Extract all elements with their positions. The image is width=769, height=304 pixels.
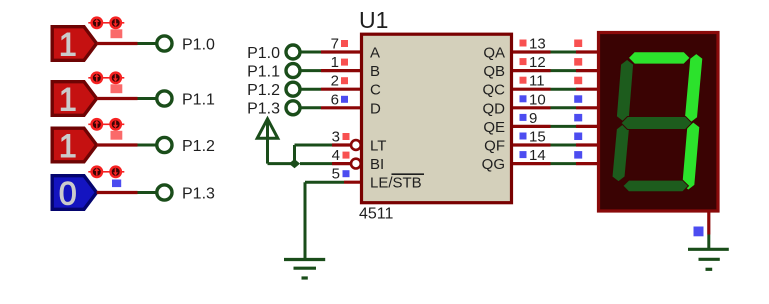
segment E (off): [612, 124, 629, 182]
wire LS3 to terminal: [138, 144, 157, 147]
terminal P1.2 (left): [157, 137, 215, 154]
segment A (lit): [628, 52, 690, 64]
wire LS2 to terminal: [138, 97, 157, 100]
svg-text:P1.0: P1.0: [182, 36, 215, 53]
toggle buttons of LS1: [88, 18, 124, 28]
wire LS1 to terminal: [138, 42, 157, 45]
toggle buttons of LS4: [88, 167, 124, 177]
state indicator square of LS2: [111, 84, 123, 93]
svg-text:9: 9: [529, 110, 537, 127]
svg-text:B: B: [370, 63, 380, 80]
ground symbol at U1: [284, 260, 325, 279]
wire QG to display: [551, 162, 577, 165]
junction node: [289, 159, 300, 168]
wire QF to display: [551, 144, 577, 147]
wire P1.0 terminal to pin 7: [301, 51, 322, 54]
wire arrow to junction: [268, 162, 295, 165]
power arrow terminal: [257, 119, 278, 164]
wire QE to display: [551, 125, 577, 128]
terminal P1.3 (left): [157, 185, 215, 202]
svg-text:P1.1: P1.1: [182, 91, 215, 108]
pin 15 of U1 (QF): [513, 129, 551, 146]
wire QD to display: [551, 106, 577, 109]
wire junction to BI: [300, 162, 332, 165]
svg-text:1: 1: [331, 54, 339, 71]
toggle buttons of LS2: [88, 73, 124, 83]
svg-text:P1.2: P1.2: [182, 138, 215, 155]
svg-text:LT: LT: [370, 138, 386, 155]
pin 4 of U1 (BI, active-low bubble): [332, 147, 361, 168]
svg-text:D: D: [370, 100, 381, 117]
state indicator square of LS1: [111, 29, 123, 38]
svg-text:QF: QF: [484, 138, 505, 155]
pin of LS3: [97, 143, 138, 146]
svg-text:A: A: [370, 45, 380, 62]
svg-text:10: 10: [529, 91, 546, 108]
pin 1 of U1 (B): [321, 54, 362, 71]
svg-text:15: 15: [529, 129, 546, 146]
pin 9 of U1 (QE): [513, 110, 551, 127]
svg-text:P1.2: P1.2: [247, 82, 280, 99]
wire P1.1 terminal to pin 1: [301, 69, 322, 72]
op chip U1 body (4511 BCD decoder): [359, 7, 512, 223]
pin 7 of U1 (A): [321, 36, 362, 53]
pin 2 of U1 (C): [321, 73, 362, 90]
svg-text:QE: QE: [483, 119, 505, 136]
svg-text:QD: QD: [483, 100, 506, 117]
pin of LS1: [97, 42, 138, 45]
wire P1.3 terminal to pin 6: [301, 106, 322, 109]
terminal P1.1 (at U1): [247, 63, 300, 80]
wire QA to display: [551, 51, 577, 54]
logic state input LS2 value 1: [52, 81, 96, 117]
pin 10 of U1 (QD): [513, 91, 551, 108]
pin 14 of U1 (QG): [513, 147, 551, 164]
svg-text:3: 3: [332, 129, 340, 146]
segment G (off): [621, 117, 692, 130]
pin 13 of U1 (QA): [513, 36, 551, 53]
wire pin 5 to ground: [305, 182, 344, 259]
segment D (off): [623, 180, 689, 192]
display pin QF: [574, 133, 598, 146]
wire common to ground: [707, 235, 710, 250]
pin 12 of U1 (QB): [513, 54, 551, 71]
wire P1.2 terminal to pin 2: [301, 88, 322, 91]
svg-text:C: C: [370, 82, 381, 99]
svg-text:4: 4: [332, 147, 340, 164]
svg-text:14: 14: [529, 147, 546, 164]
pin of LS2: [97, 97, 138, 100]
segment C (lit): [682, 122, 700, 190]
7-segment display body: [599, 33, 719, 212]
display pin QB: [574, 58, 598, 71]
wire junction up to LT: [295, 145, 333, 164]
svg-text:0: 0: [59, 175, 77, 211]
svg-text:QC: QC: [483, 82, 506, 99]
svg-text:4511: 4511: [359, 206, 394, 223]
svg-text:LE/STB: LE/STB: [370, 175, 422, 192]
logic state input LS1 value 1: [52, 26, 96, 62]
logic state input LS4 value 0: [52, 175, 96, 211]
svg-text:1: 1: [59, 26, 77, 62]
wire LS4 to terminal: [138, 191, 157, 194]
toggle buttons of LS3: [88, 119, 124, 129]
svg-text:1: 1: [59, 81, 77, 117]
display pin QE: [574, 114, 598, 127]
pin 11 of U1 (QC): [513, 73, 551, 90]
svg-text:BI: BI: [370, 156, 384, 173]
pin of LS4: [97, 191, 138, 194]
state indicator square of LS4: [112, 180, 121, 188]
segment B (lit): [685, 54, 703, 123]
svg-text:QB: QB: [483, 63, 505, 80]
svg-text:5: 5: [332, 166, 340, 183]
terminal P1.3 (at U1): [247, 101, 300, 118]
svg-text:U1: U1: [359, 7, 388, 33]
pin 3 of U1 (LT, active-low bubble): [332, 129, 361, 150]
svg-text:1: 1: [59, 128, 77, 164]
display pin QC: [574, 77, 598, 90]
svg-text:QG: QG: [482, 156, 505, 173]
terminal P1.0 (at U1): [247, 45, 300, 62]
segment F (off): [616, 59, 633, 121]
display pin QD: [574, 95, 598, 108]
pin 6 of U1 (D): [321, 91, 362, 108]
svg-text:P1.0: P1.0: [247, 45, 280, 62]
logic state input LS3 value 1: [52, 128, 96, 164]
svg-text:6: 6: [331, 91, 339, 108]
terminal P1.1 (left): [157, 91, 215, 108]
wire QC to display: [551, 88, 577, 91]
svg-text:P1.3: P1.3: [247, 101, 280, 118]
terminal P1.2 (at U1): [247, 82, 300, 99]
ground symbol at display: [688, 249, 729, 269]
svg-text:2: 2: [331, 73, 339, 90]
display pin QG: [574, 151, 598, 164]
display common pin: [694, 212, 709, 237]
svg-text:11: 11: [529, 73, 545, 90]
svg-text:QA: QA: [483, 45, 505, 62]
state indicator square of LS3: [111, 131, 123, 140]
svg-text:P1.1: P1.1: [247, 63, 280, 80]
svg-text:P1.3: P1.3: [182, 185, 215, 202]
wire QB to display: [551, 69, 577, 72]
terminal P1.0 (left): [157, 36, 215, 53]
display pin QA: [574, 40, 598, 53]
svg-text:12: 12: [529, 54, 546, 71]
svg-text:7: 7: [331, 36, 339, 53]
svg-text:13: 13: [529, 36, 546, 53]
pin 5 of U1 (LE/STB): [332, 166, 362, 183]
